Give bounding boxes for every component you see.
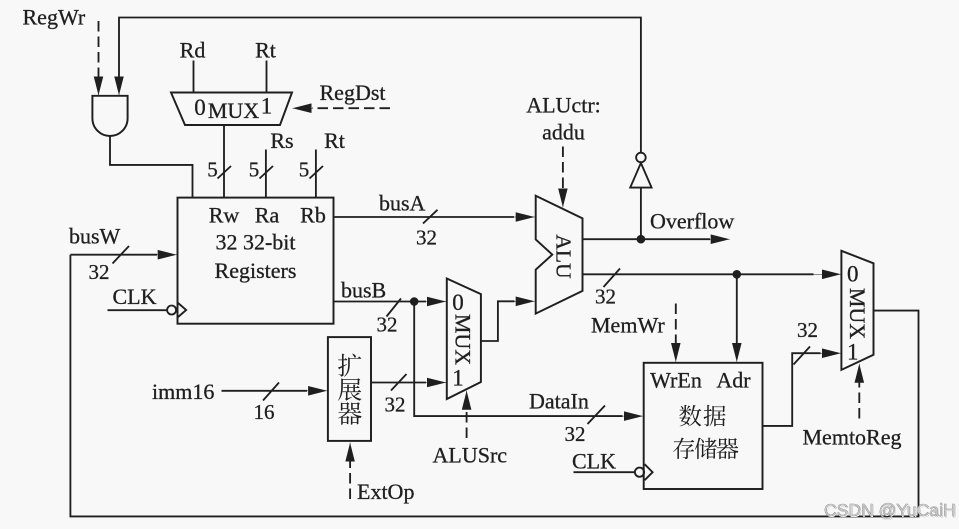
wire: memory output to M3 input 1 (32-bit) — [763, 353, 821, 426]
svg-text:Rd: Rd — [180, 38, 206, 63]
wire: busW into register file (32-bit) — [70, 254, 157, 256]
svg-text:1: 1 — [261, 94, 273, 119]
svg-text:WrEn: WrEn — [650, 368, 702, 393]
wire: MemtoReg control (dashed) into M3 select — [858, 381, 860, 419]
svg-text:16: 16 — [254, 400, 275, 424]
slash: Rw bus width — [218, 166, 232, 179]
svg-text:ALUctr:: ALUctr: — [526, 93, 601, 118]
svg-text:CSDN @YuCaiH: CSDN @YuCaiH — [824, 500, 956, 520]
svg-text:addu: addu — [542, 120, 585, 145]
ALU — [536, 196, 583, 314]
label shu — [679, 405, 701, 427]
svg-text:MUX: MUX — [845, 288, 870, 339]
svg-text:ExtOp: ExtOp — [357, 479, 414, 504]
wire: M2 output to ALU second input — [481, 301, 515, 341]
svg-text:32: 32 — [565, 422, 586, 446]
clock bubble (memory) — [635, 468, 644, 477]
wire: CLK to register file — [108, 309, 167, 311]
svg-text:Adr: Adr — [716, 368, 751, 393]
mux M1 (RegDst mux) — [171, 93, 292, 126]
slash: DataIn width — [588, 406, 606, 425]
wire: ALUSrc control (dashed) into M2 select — [466, 408, 468, 438]
slash: extender output width — [391, 374, 407, 391]
svg-text:RegWr: RegWr — [23, 5, 86, 30]
wire: Rt to Rb (5-bit) — [315, 150, 317, 198]
svg-text:0: 0 — [194, 95, 206, 120]
junction: busB / DataIn — [410, 297, 419, 306]
svg-text:RegDst: RegDst — [320, 80, 386, 105]
svg-text:Rw: Rw — [209, 203, 240, 228]
svg-text:imm16: imm16 — [152, 379, 214, 404]
wire: ALUctr control (dashed) into ALU — [562, 147, 564, 192]
svg-text:32: 32 — [89, 260, 110, 284]
wire: MemWr control (dashed) into memory WrEn — [675, 304, 677, 346]
svg-text:busA: busA — [379, 191, 426, 216]
wire: RegWr control (dashed) into AND gate — [98, 21, 100, 78]
wire: Rt to M1 input 1 — [266, 61, 268, 93]
slash: imm16 width — [263, 383, 279, 401]
svg-text:1: 1 — [847, 340, 859, 365]
data memory block (shuju cunchuqi) — [644, 363, 763, 489]
label kuo — [338, 354, 361, 377]
svg-text:MUX: MUX — [451, 314, 476, 365]
svg-text:MemWr: MemWr — [591, 313, 665, 338]
svg-text:1: 1 — [452, 366, 464, 391]
svg-text:Rb: Rb — [300, 203, 326, 228]
svg-text:Rs: Rs — [270, 128, 293, 153]
mux M2 (ALUSrc mux) — [447, 279, 481, 400]
svg-text:DataIn: DataIn — [529, 389, 589, 414]
inverter (overflow to write-enable feedback) — [636, 153, 646, 163]
label zhan — [338, 378, 361, 401]
wire: result down to memory Adr — [736, 274, 738, 345]
svg-text:Ra: Ra — [255, 203, 280, 228]
svg-text:ALU: ALU — [552, 234, 576, 279]
svg-text:5: 5 — [299, 158, 310, 182]
clock wedge (register file) — [178, 303, 187, 318]
svg-text:32: 32 — [797, 318, 818, 342]
wire: overflow node to inverter input — [640, 188, 642, 240]
svg-text:32: 32 — [595, 285, 616, 309]
wire: ALU overflow output — [583, 238, 711, 240]
svg-text:Registers: Registers — [215, 258, 297, 283]
svg-text:Overflow: Overflow — [650, 209, 734, 234]
junction: overflow node — [637, 235, 646, 244]
wire: feedback from inverter output across top to AND gate input — [119, 18, 641, 153]
label qi — [338, 402, 362, 425]
wire: M3 output return path to busW — [70, 255, 918, 517]
slash: Ra bus width — [260, 166, 274, 179]
wire: busA register file to ALU (32-bit) — [334, 216, 515, 218]
sign extender block (kuozhanqi) — [328, 337, 371, 441]
svg-text:Rt: Rt — [324, 128, 345, 153]
svg-text:MemtoReg: MemtoReg — [803, 425, 902, 450]
slash: busB width — [387, 299, 402, 317]
junction: result / Adr — [733, 270, 742, 279]
wire: ExtOp control (dashed) into extender — [349, 459, 351, 499]
svg-text:32: 32 — [416, 226, 437, 250]
svg-text:5: 5 — [207, 158, 218, 182]
svg-text:CLK: CLK — [113, 284, 157, 309]
clock wedge (memory) — [645, 464, 653, 480]
slash: Rb bus width — [310, 166, 324, 179]
label cun — [673, 438, 694, 460]
svg-text:32: 32 — [385, 393, 406, 417]
svg-text:ALUSrc: ALUSrc — [433, 443, 508, 468]
slash: busW width — [113, 246, 130, 264]
svg-text:5: 5 — [249, 158, 260, 182]
svg-text:Rt: Rt — [255, 38, 276, 63]
clock bubble (register file) — [167, 306, 176, 315]
wire: extender output to M2 input 1 (32-bit) — [371, 382, 426, 384]
svg-text:busB: busB — [341, 278, 386, 303]
svg-text:busW: busW — [69, 224, 121, 249]
svg-text:32 32-bit: 32 32-bit — [215, 230, 295, 255]
wire: Rs to Ra (5-bit) — [265, 150, 267, 198]
svg-text:MUX: MUX — [208, 98, 259, 123]
wire: M1 output to Rw (5-bit) — [223, 125, 225, 198]
slash: ALU result width — [604, 269, 621, 288]
svg-text:0: 0 — [452, 290, 464, 315]
slash: memory output width — [794, 347, 811, 365]
wire: busB register file to M2 input 0 (32-bit) — [334, 301, 427, 303]
wire: busB junction down and right to DataIn (32-bit) — [414, 302, 622, 417]
mux M3 (MemtoReg mux) — [841, 251, 873, 370]
wire: RegDst control (dashed) into M1 select — [312, 107, 390, 109]
slash: busA width — [423, 210, 438, 224]
label qi (memory) — [716, 438, 738, 459]
svg-text:32: 32 — [377, 313, 398, 337]
register file block (32 32-bit Registers) — [178, 198, 334, 324]
wire: Rd to M1 input 0 — [193, 61, 195, 93]
svg-text:0: 0 — [847, 262, 859, 287]
label ju — [704, 405, 726, 427]
label chu — [695, 438, 717, 460]
AND gate (write-enable gating) — [92, 96, 127, 136]
wire: imm16 into extender (16-bit) — [222, 390, 308, 392]
svg-text:CLK: CLK — [572, 449, 616, 474]
wire: AND gate output to register file write enable — [110, 136, 193, 197]
wire: CLK to memory — [574, 471, 636, 473]
wire: ALU result to M3 input 0 (32-bit) — [583, 273, 814, 275]
